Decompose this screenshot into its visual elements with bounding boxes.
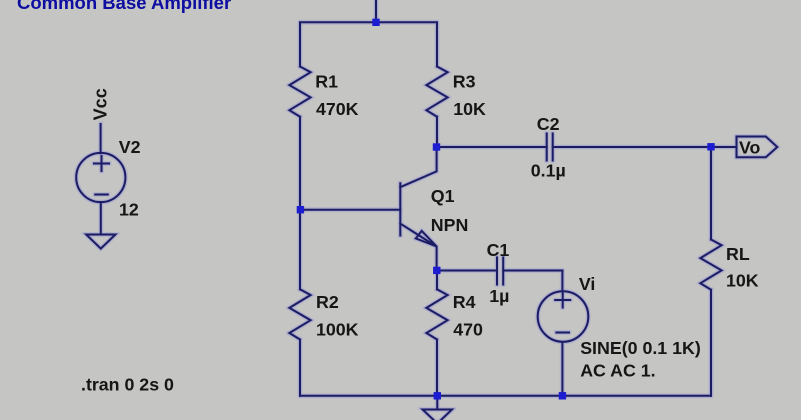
svg-text:470K: 470K xyxy=(316,99,359,119)
svg-text:Q1: Q1 xyxy=(431,186,455,206)
svg-text:Vo: Vo xyxy=(739,138,761,158)
svg-text:AC AC 1.: AC AC 1. xyxy=(580,360,655,380)
svg-text:R1: R1 xyxy=(315,71,338,91)
svg-text:NPN: NPN xyxy=(431,215,469,235)
svg-text:R3: R3 xyxy=(453,71,476,91)
svg-text:10K: 10K xyxy=(726,271,759,291)
svg-text:Vcc: Vcc xyxy=(91,88,111,120)
svg-text:470: 470 xyxy=(453,320,483,340)
svg-text:V2: V2 xyxy=(119,137,141,157)
svg-text:SINE(0 0.1 1K): SINE(0 0.1 1K) xyxy=(580,338,701,358)
svg-text:12: 12 xyxy=(119,199,139,219)
svg-text:.tran 0 2s 0: .tran 0 2s 0 xyxy=(81,375,174,395)
svg-text:1µ: 1µ xyxy=(489,286,509,306)
svg-text:RL: RL xyxy=(726,244,750,264)
svg-text:C1: C1 xyxy=(487,240,510,260)
svg-text:10K: 10K xyxy=(453,99,486,119)
svg-text:R2: R2 xyxy=(316,292,339,312)
svg-text:0.1µ: 0.1µ xyxy=(531,161,566,181)
svg-text:R4: R4 xyxy=(453,292,476,312)
svg-text:C2: C2 xyxy=(537,114,560,134)
svg-text:Vi: Vi xyxy=(579,274,595,294)
svg-text:100K: 100K xyxy=(316,320,359,340)
svg-text:Common Base Amplifier: Common Base Amplifier xyxy=(17,0,231,13)
